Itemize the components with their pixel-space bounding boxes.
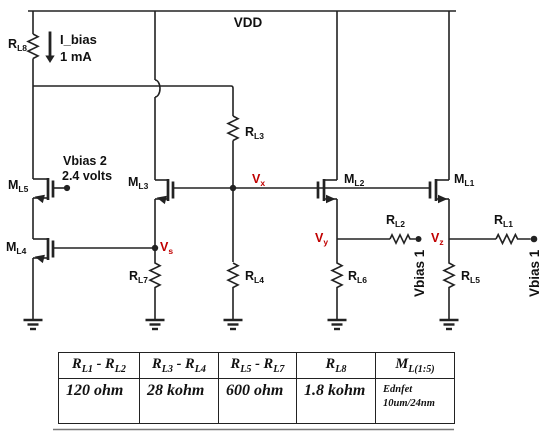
ground left ML4	[24, 320, 43, 329]
current arrow I_bias	[45, 32, 54, 64]
wire bias line to RL3	[33, 86, 233, 116]
resistor RL2	[390, 235, 416, 243]
wire rail B upper	[154, 11, 156, 80]
resistor RL1	[496, 235, 531, 244]
svg-text:Vbias 2: Vbias 2	[63, 154, 107, 168]
node Vbias1 right dot	[531, 236, 538, 243]
svg-text:Vx: Vx	[252, 172, 265, 188]
wire bottom separator line	[53, 429, 454, 431]
resistor RL7	[150, 248, 160, 320]
svg-text:RL2: RL2	[386, 213, 405, 229]
wire hop over bias line	[155, 80, 160, 97]
svg-text:RL6: RL6	[348, 269, 367, 285]
wire Vx gate line	[173, 187, 430, 189]
resistor RL3	[228, 116, 238, 141]
svg-text:RL4: RL4	[245, 269, 264, 285]
ground RL4	[224, 320, 243, 329]
resistor RL8	[28, 34, 38, 58]
resistor RL5	[444, 239, 454, 320]
svg-text:RL1: RL1	[494, 213, 513, 229]
wire rail C Vx down	[232, 188, 234, 262]
svg-text:ML1: ML1	[454, 172, 475, 188]
ground RL6	[328, 320, 347, 329]
svg-text:ML5: ML5	[8, 178, 29, 194]
wire RL3 to Vx	[232, 141, 234, 189]
component value table	[58, 352, 455, 424]
svg-text:Vy: Vy	[315, 231, 328, 247]
svg-text:RL7: RL7	[129, 269, 148, 285]
node Vs	[152, 245, 158, 251]
ground RL5	[440, 320, 459, 329]
svg-text:Vs: Vs	[160, 240, 173, 256]
svg-text:Vbias 1: Vbias 1	[412, 249, 427, 297]
wire rail A mid	[32, 59, 34, 180]
resistor RL6	[332, 239, 342, 320]
wire rail A upper	[32, 11, 34, 34]
svg-text:I_bias: I_bias	[60, 32, 97, 47]
wire Vy to RL2	[337, 238, 390, 240]
node Vbias2 dot	[64, 185, 70, 191]
resistor RL4	[228, 263, 238, 320]
ground RL7	[146, 320, 165, 329]
svg-text:2.4 volts: 2.4 volts	[62, 169, 112, 183]
transistor ML2	[318, 179, 337, 239]
svg-text:1 mA: 1 mA	[60, 49, 92, 64]
wire rail B to ML3	[154, 97, 156, 180]
wire VDD rail	[28, 10, 456, 12]
svg-text:VDD: VDD	[234, 15, 263, 30]
svg-text:Vz: Vz	[431, 231, 444, 247]
node Vbias1 left dot	[416, 236, 422, 242]
transistor ML3	[155, 179, 173, 248]
svg-text:ML4: ML4	[6, 240, 27, 256]
svg-text:Vbias 1: Vbias 1	[527, 249, 542, 297]
wire rail E upper	[448, 11, 450, 180]
svg-text:RL3: RL3	[245, 125, 264, 141]
svg-text:RL8: RL8	[8, 37, 27, 53]
transistor ML1	[430, 179, 449, 239]
wire Vz to RL1	[449, 238, 496, 240]
svg-text:ML3: ML3	[128, 175, 149, 191]
svg-text:RL5: RL5	[461, 269, 480, 285]
svg-text:ML2: ML2	[344, 172, 365, 188]
node Vx	[230, 185, 236, 191]
transistor ML5	[33, 178, 64, 239]
wire rail D upper	[336, 11, 338, 180]
transistor ML4	[33, 238, 155, 320]
